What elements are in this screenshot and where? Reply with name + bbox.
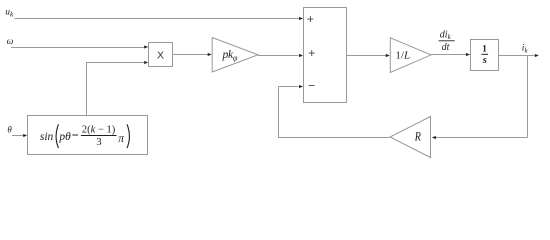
wire u_k input line — [15, 18, 300, 20]
svg-text:+: + — [308, 46, 315, 60]
arrowhead into gain pk — [208, 53, 212, 56]
wire summer output to gain 1/L — [347, 55, 387, 57]
wire gain pk output to summer middle input — [258, 55, 299, 57]
wire gain R output to left — [278, 137, 390, 139]
svg-text:dt: dt — [442, 42, 450, 53]
gain block R — [390, 117, 431, 158]
svg-text:1/L: 1/L — [395, 50, 410, 62]
arrowhead into sin block — [23, 134, 27, 137]
gain block 1/L — [390, 38, 431, 73]
arrowhead into summer top input — [299, 17, 303, 20]
sin block — [28, 116, 148, 155]
svg-text:X: X — [157, 50, 164, 61]
svg-text:sin: sin — [40, 131, 54, 143]
svg-text:dik: dik — [440, 29, 452, 41]
wire into summer minus input — [279, 86, 299, 88]
wire multiplier output to gain pk — [173, 54, 209, 56]
wire omega input line — [11, 47, 145, 49]
arrowhead into gain 1/L — [386, 54, 390, 57]
wire integrator output — [499, 55, 535, 57]
svg-text:ik: ik — [522, 44, 529, 55]
svg-text:1: 1 — [482, 44, 487, 54]
svg-text:3: 3 — [96, 137, 101, 148]
integrator block 1/s — [471, 40, 499, 71]
svg-text:+: + — [307, 12, 314, 26]
wire gain 1/L output to integrator — [431, 54, 467, 56]
arrowhead into multiplier input 1 — [144, 45, 148, 48]
output arrowhead i_k — [535, 54, 539, 57]
wire feedback top run to gain R — [436, 137, 528, 139]
svg-text:pθ: pθ — [58, 131, 71, 143]
wire theta arrow — [12, 135, 24, 137]
svg-text:s: s — [482, 55, 487, 66]
multiplier block X — [149, 43, 173, 67]
arrowhead into gain R — [432, 136, 436, 139]
svg-text:R: R — [414, 130, 421, 143]
arrowhead into integrator — [466, 53, 470, 56]
wire feedback vertical drop from output node — [527, 56, 529, 138]
gain block pk_phi — [212, 38, 258, 73]
sin block formula — [40, 124, 130, 148]
svg-text:−: − — [308, 79, 315, 93]
svg-text:2(k − 1): 2(k − 1) — [82, 124, 116, 135]
summer block — [304, 8, 347, 103]
arrowhead into summer minus input — [299, 85, 303, 88]
node label di_k/dt — [439, 29, 455, 53]
svg-text:uk: uk — [5, 7, 14, 18]
wire feedback left vertical rise — [278, 87, 280, 138]
wire from sin block up to multiplier input 2 — [87, 63, 145, 116]
arrowhead into summer middle input — [299, 54, 303, 57]
svg-text:θ: θ — [7, 124, 12, 134]
svg-text:ω: ω — [7, 37, 14, 47]
arrowhead into multiplier input 2 — [144, 61, 148, 64]
